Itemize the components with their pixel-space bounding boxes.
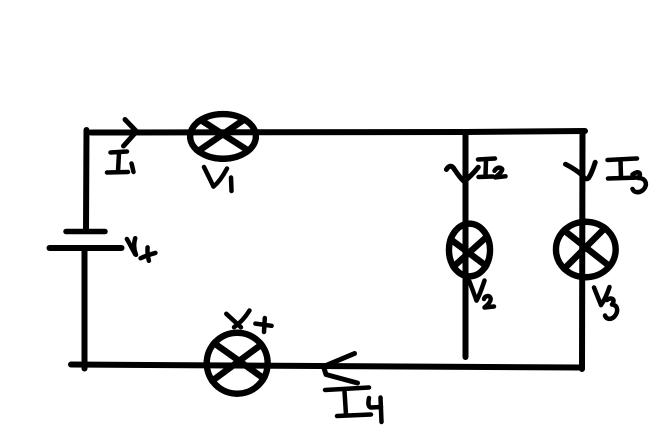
- label I3: [608, 159, 646, 193]
- label Vx (battery voltage): [127, 238, 155, 261]
- current arrow I1 (right, on top wire): [124, 120, 137, 147]
- battery Vx bottom plate (long): [50, 245, 122, 251]
- label V4 (above lamp V4): [226, 311, 271, 333]
- wire left vertical upper (top rail down to battery): [83, 130, 90, 229]
- current arrow I4 (left, on bottom wire): [324, 354, 358, 384]
- battery Vx top plate (short): [66, 229, 105, 235]
- label V2: [470, 281, 495, 308]
- label V3: [594, 287, 617, 319]
- wire top horizontal (battery + rail to V3 branch): [91, 131, 585, 133]
- label I4: [325, 388, 382, 423]
- wire right branch vertical (through lamp V3): [579, 132, 586, 369]
- current arrow I2 (down, on middle branch): [446, 166, 478, 181]
- wire middle branch vertical (node A down through lamp V2): [463, 132, 469, 357]
- current arrow I3 (down, on right branch): [566, 162, 596, 179]
- lamp V2 (circle with X): [449, 224, 490, 277]
- lamp V4 (circle with X): [207, 333, 268, 394]
- label I1: [107, 152, 134, 173]
- lamp V3 (circle with X): [556, 222, 616, 277]
- lamp V1 (circle with X): [190, 114, 256, 159]
- label I2: [478, 159, 506, 178]
- wire left vertical lower (battery to bottom rail): [82, 251, 88, 369]
- label V1: [204, 167, 232, 191]
- wire bottom horizontal (bottom rail): [71, 365, 579, 368]
